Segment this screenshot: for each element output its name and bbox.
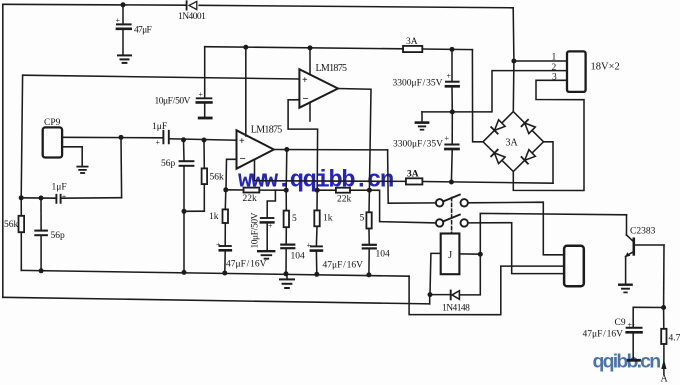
- wire coil to transistor: [480, 213, 626, 254]
- node U2 V+: [308, 45, 313, 50]
- capacitor 104 second: [363, 245, 376, 275]
- svg-text:C2383: C2383: [630, 227, 656, 237]
- transformer 18Vx2: [567, 51, 586, 92]
- svg-text:18V×2: 18V×2: [591, 62, 620, 73]
- wire U2 -input: [288, 100, 318, 190]
- wire ground rail: [21, 270, 409, 276]
- node top cap junction: [121, 2, 126, 7]
- resistor 56k second: [184, 140, 207, 211]
- svg-text:3: 3: [552, 73, 557, 83]
- wire U1 V- stub: [254, 160, 256, 181]
- wire center tap to ground: [422, 111, 452, 113]
- node CP9 out: [119, 135, 124, 140]
- svg-text:+: +: [62, 193, 67, 202]
- node +input a: [181, 137, 186, 142]
- node midpoint caps: [450, 109, 455, 114]
- transistor Q1 C2383: [625, 215, 664, 284]
- svg-text:2: 2: [552, 63, 557, 73]
- svg-text:3300μF / 35V: 3300μF / 35V: [393, 79, 443, 89]
- wire top rail corner down to bridge: [512, 8, 515, 112]
- wire U2 V- stub: [309, 103, 311, 121]
- svg-text:J: J: [448, 250, 452, 261]
- node 56p/56k join: [182, 209, 187, 214]
- svg-text:10μF / 50V: 10μF / 50V: [155, 97, 191, 107]
- svg-text:5: 5: [360, 214, 365, 224]
- svg-text:1k: 1k: [323, 214, 333, 224]
- wire relay right: [459, 253, 480, 255]
- wire U1 V+ pin: [245, 47, 247, 136]
- wire CP9 ground stub: [62, 147, 82, 166]
- ground for CP9: [77, 167, 87, 173]
- svg-text:LM1875: LM1875: [316, 63, 348, 74]
- svg-text:1N4148: 1N4148: [442, 304, 470, 314]
- capacitor 47uF top-left: [117, 5, 131, 55]
- capacitor 3300uF/35V first: [446, 49, 459, 112]
- svg-text:−: −: [240, 153, 246, 165]
- supply rail upper: [205, 47, 403, 49]
- svg-text:56p: 56p: [51, 231, 66, 241]
- capacitor 10uF/50V second: [261, 190, 276, 250]
- svg-text:1: 1: [552, 53, 557, 63]
- wire pin2: [452, 71, 567, 112]
- svg-text:5: 5: [292, 214, 297, 224]
- wire top rail: [3, 3, 187, 6]
- capacitor C9: [627, 307, 664, 360]
- svg-text:1μF: 1μF: [152, 122, 167, 132]
- svg-text:56k: 56k: [210, 173, 225, 183]
- ground for 47uF: [118, 55, 131, 63]
- svg-text:+: +: [445, 134, 450, 143]
- node -input U1: [223, 187, 228, 192]
- wire CP9 output: [62, 136, 162, 139]
- svg-text:+: +: [447, 72, 452, 81]
- bridge rectifier 3A: [483, 112, 544, 172]
- svg-text:104: 104: [291, 252, 306, 262]
- svg-text:+: +: [199, 90, 204, 99]
- node U1 out: [284, 147, 289, 152]
- resistor 22k first: [226, 188, 286, 193]
- resistor 1k first: [223, 190, 229, 245]
- node fb2: [315, 188, 320, 193]
- node +input b: [202, 138, 207, 143]
- wire out2 to switch row2: [369, 190, 435, 223]
- wire pin1: [514, 60, 567, 62]
- wire U2 V+ pin: [309, 48, 311, 75]
- wire S2 right to connector: [468, 223, 564, 274]
- capacitor 56p left: [35, 198, 47, 271]
- svg-text:1k: 1k: [209, 212, 219, 222]
- relay coil J: [441, 234, 460, 275]
- ground center tap: [416, 123, 428, 130]
- svg-text:A: A: [661, 374, 669, 385]
- svg-text:4.7: 4.7: [669, 334, 680, 344]
- svg-text:22k: 22k: [337, 195, 352, 205]
- wire +input rail to upper opamp: [23, 75, 299, 79]
- svg-text:104: 104: [376, 250, 391, 260]
- switch S1: [436, 195, 468, 207]
- switch S2: [436, 215, 468, 227]
- fuse 3A lower: [406, 178, 423, 184]
- svg-text:1μF: 1μF: [52, 183, 67, 193]
- resistor 5 second: [366, 190, 371, 244]
- node pin1 junction: [511, 59, 516, 64]
- resistor 1k second: [314, 190, 319, 245]
- connector box: [564, 246, 584, 286]
- fuse 3A upper: [403, 46, 422, 52]
- node rail 56p: [39, 268, 44, 273]
- svg-text:−: −: [303, 93, 309, 105]
- svg-text:47μF / 16V: 47μF / 16V: [583, 330, 624, 340]
- svg-text:+ ·: + ·: [628, 321, 636, 330]
- svg-text:10μF / 50V: 10μF / 50V: [251, 212, 261, 248]
- svg-text:3300μF / 35V: 3300μF / 35V: [393, 140, 443, 150]
- wire U2 output: [338, 89, 371, 191]
- resistor 5 first: [284, 190, 289, 243]
- negative rail: [255, 180, 406, 183]
- svg-text:47μF / 16V: 47μF / 16V: [226, 260, 267, 270]
- dashed link: [451, 198, 453, 234]
- capacitor 10uF/50V first: [197, 47, 212, 118]
- svg-text:1N4001: 1N4001: [178, 12, 206, 22]
- svg-text:56k: 56k: [4, 220, 19, 230]
- wire 1uF to +input: [169, 139, 237, 140]
- svg-text:47μF: 47μF: [134, 26, 151, 36]
- capacitor 47uF/16V second: [311, 246, 322, 274]
- node left b: [39, 196, 44, 201]
- op-amp U2 LM1875 upper: [299, 69, 338, 108]
- svg-text:+: +: [239, 136, 245, 147]
- svg-text:C9: C9: [615, 318, 626, 328]
- ground emitter: [619, 285, 631, 293]
- ground below rail: [280, 274, 294, 288]
- svg-text:3A: 3A: [406, 37, 418, 47]
- svg-text:CP9: CP9: [44, 118, 61, 128]
- svg-text:+: +: [216, 241, 221, 250]
- svg-text:22k: 22k: [243, 194, 258, 204]
- wire relay left: [430, 253, 441, 294]
- node rail x184: [182, 270, 187, 275]
- svg-text:+: +: [156, 138, 161, 147]
- resistor 22k second: [317, 188, 369, 193]
- wire bridge bottom to pin3 loop: [513, 80, 584, 190]
- wire bridge right to neg rail: [544, 142, 554, 183]
- wire bottom frame: [3, 297, 430, 304]
- svg-text:+: +: [307, 241, 312, 250]
- CP9 box: [43, 127, 62, 157]
- svg-text:+: +: [116, 16, 121, 25]
- svg-text:3A: 3A: [407, 170, 419, 180]
- wire 1uF lower branch: [120, 137, 123, 197]
- svg-text:56p: 56p: [161, 159, 176, 169]
- wire base down to node: [663, 245, 665, 308]
- wire out1 to switch row1: [388, 150, 436, 203]
- capacitor 1uF coupling: [163, 131, 168, 144]
- capacitor 1uF lower: [56, 195, 60, 203]
- node out2: [367, 188, 372, 193]
- wire supply to bridge left: [472, 50, 483, 142]
- op-amp U1 LM1875 lower: [237, 130, 274, 168]
- resistor 56k left: [19, 198, 25, 271]
- node left a: [19, 195, 24, 200]
- capacitor 3300uF/35V second: [445, 112, 458, 182]
- node zobel1: [284, 188, 289, 193]
- svg-text:LM1875: LM1875: [251, 125, 283, 136]
- node U1 V+: [243, 45, 248, 50]
- capacitor 47uF/16V first: [220, 246, 231, 273]
- wire left frame: [2, 4, 4, 297]
- resistor 4.7: [661, 308, 666, 375]
- svg-text:47μF / 16V: 47μF / 16V: [323, 261, 364, 271]
- svg-text:qqibb.cn: qqibb.cn: [593, 351, 661, 373]
- svg-text:+: +: [268, 222, 273, 231]
- wire U1 output: [274, 149, 388, 151]
- wire gnd rail to connector mid: [409, 266, 564, 315]
- capacitor 104 first: [281, 245, 294, 274]
- ground for 10uF second: [258, 251, 274, 259]
- capacitor 56p upper: [180, 140, 194, 273]
- wire U1 -input: [226, 159, 237, 190]
- wire S1 right to connector: [468, 202, 564, 255]
- svg-text:+: +: [302, 75, 308, 86]
- diode 1N4148: [430, 254, 480, 299]
- svg-text:3A: 3A: [506, 138, 519, 149]
- diode 1N4001: [187, 1, 197, 9]
